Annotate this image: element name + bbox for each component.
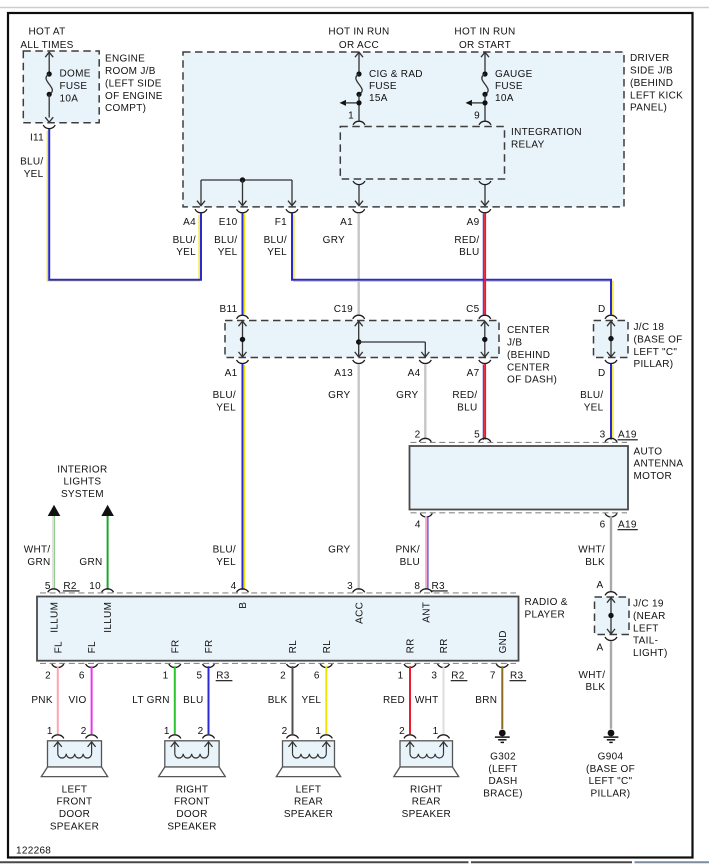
svg-text:DASH: DASH <box>489 776 518 787</box>
svg-text:I11: I11 <box>30 133 44 144</box>
svg-text:AUTO: AUTO <box>634 446 663 457</box>
J/C 19 internal joint <box>607 598 615 603</box>
svg-text:LEFT: LEFT <box>62 784 88 795</box>
pin 6 FL- of radio <box>86 664 98 667</box>
svg-text:CENTER: CENTER <box>507 325 550 336</box>
center J/B internal B11-A1 link <box>239 321 247 326</box>
connector A4 (center J/B) <box>419 360 431 364</box>
svg-text:RED/: RED/ <box>452 390 477 401</box>
svg-text:ALL TIMES: ALL TIMES <box>20 40 73 51</box>
pin 2 of right front door speaker <box>203 735 215 739</box>
svg-text:1: 1 <box>163 671 169 682</box>
wire WHT/BLK J/C 19 pin A to ground G904 <box>610 641 612 729</box>
center J/B internal C19-A13-A4 link <box>355 321 363 326</box>
svg-text:A9: A9 <box>467 217 480 228</box>
relay output A1 leg <box>353 181 365 185</box>
svg-text:CENTER: CENTER <box>507 362 550 373</box>
svg-text:6: 6 <box>314 671 320 682</box>
relay output A9 leg <box>479 181 491 185</box>
radio bottom connector row <box>40 662 516 664</box>
svg-text:YEL: YEL <box>216 557 236 568</box>
connector A7 <box>479 360 491 364</box>
off-page arrow GRN to interior lights <box>101 505 114 516</box>
svg-text:GRY: GRY <box>328 545 350 556</box>
pin 1 of right rear speaker <box>438 735 450 739</box>
svg-text:A19: A19 <box>618 520 637 531</box>
svg-text:LEFT: LEFT <box>633 623 659 634</box>
svg-text:(BEHIND: (BEHIND <box>507 350 550 361</box>
wire RED radio pin 1 to RR speaker pin 2 <box>409 666 411 734</box>
svg-text:OF DASH): OF DASH) <box>507 375 557 386</box>
svg-text:D: D <box>598 304 606 315</box>
svg-text:1: 1 <box>398 671 404 682</box>
svg-text:A1: A1 <box>225 368 238 379</box>
pin 6 of antenna motor <box>605 513 617 516</box>
svg-text:E10: E10 <box>219 217 238 228</box>
connector F1 <box>286 209 298 213</box>
svg-text:SYSTEM: SYSTEM <box>61 489 104 500</box>
svg-text:TAIL-: TAIL- <box>633 636 658 647</box>
svg-text:YEL: YEL <box>301 695 321 706</box>
svg-text:FL: FL <box>53 641 64 653</box>
svg-text:RIGHT: RIGHT <box>176 784 209 795</box>
wire LT GRN radio pin 1 to RF speaker pin 1 <box>174 666 176 734</box>
svg-text:BLU: BLU <box>457 402 477 413</box>
svg-text:2: 2 <box>415 430 421 441</box>
speaker LS1 left front door <box>48 741 102 767</box>
svg-text:BLU/: BLU/ <box>20 157 43 168</box>
svg-text:OR START: OR START <box>459 40 511 51</box>
wire BLU/YEL A1 to radio pin 4 <box>243 365 245 589</box>
center J/B box <box>225 321 499 358</box>
svg-text:PNK: PNK <box>31 695 52 706</box>
svg-text:RED/: RED/ <box>454 235 479 246</box>
J/C 19 box <box>595 597 630 635</box>
svg-text:WHT/: WHT/ <box>579 670 606 681</box>
svg-text:J/C 18: J/C 18 <box>634 322 665 333</box>
svg-text:FUSE: FUSE <box>495 81 523 92</box>
svg-text:BLU/: BLU/ <box>214 235 237 246</box>
svg-text:DRIVER: DRIVER <box>630 53 670 64</box>
wire GRY A4 to antenna motor pin 2 <box>424 364 426 440</box>
connector D (top) <box>605 315 617 319</box>
antenna motor top connector row <box>411 441 628 443</box>
svg-text:5: 5 <box>45 581 51 592</box>
svg-text:F1: F1 <box>275 217 287 228</box>
svg-text:PNK/: PNK/ <box>395 545 420 556</box>
svg-text:OF ENGINE: OF ENGINE <box>105 91 163 102</box>
connector B11 <box>237 315 249 319</box>
svg-text:PILLAR): PILLAR) <box>634 359 674 370</box>
svg-text:WHT/: WHT/ <box>24 545 51 556</box>
pin 10 ILLUM of radio <box>102 589 114 592</box>
svg-text:A: A <box>597 580 604 591</box>
svg-text:5: 5 <box>474 430 480 441</box>
svg-text:7: 7 <box>490 671 496 682</box>
svg-text:RR: RR <box>406 638 417 653</box>
svg-text:ACC: ACC <box>354 602 365 624</box>
pin 2 of right rear speaker <box>404 735 416 739</box>
svg-text:BLU/: BLU/ <box>264 235 287 246</box>
pin 1 of left front door speaker <box>52 735 64 739</box>
svg-text:1: 1 <box>47 726 53 737</box>
svg-text:2: 2 <box>81 726 87 737</box>
svg-text:GRN: GRN <box>79 557 102 568</box>
svg-text:YEL: YEL <box>218 247 238 258</box>
antenna motor bottom connector row <box>411 512 628 514</box>
svg-text:D: D <box>598 368 606 379</box>
svg-text:A4: A4 <box>183 217 196 228</box>
svg-text:PILLAR): PILLAR) <box>591 789 631 800</box>
fuse DOME FUSE 10A <box>45 52 53 57</box>
pin 4 B of radio <box>237 589 249 592</box>
J/B internal bus for A4 E10 F1 <box>201 179 292 181</box>
center J/B internal C5-A7 link <box>481 321 489 326</box>
pin 3 RR- of radio <box>438 664 450 667</box>
svg-text:J/C 19: J/C 19 <box>633 599 664 610</box>
wire BLU/YEL I11 to A4 (dome fuse feed) <box>47 131 199 281</box>
svg-text:REAR: REAR <box>294 797 323 808</box>
svg-text:A7: A7 <box>467 368 480 379</box>
pin 3 of antenna motor <box>605 438 617 441</box>
svg-text:ENGINE: ENGINE <box>105 54 145 65</box>
svg-text:3: 3 <box>347 581 353 592</box>
svg-text:LIGHTS: LIGHTS <box>63 477 101 488</box>
svg-text:A1: A1 <box>340 217 353 228</box>
svg-text:RIGHT: RIGHT <box>410 784 443 795</box>
svg-text:BLU/: BLU/ <box>213 545 236 556</box>
svg-text:4: 4 <box>415 520 421 531</box>
svg-text:B11: B11 <box>220 304 238 315</box>
wire BRN radio pin 7 to ground G302 <box>501 666 503 729</box>
svg-text:SPEAKER: SPEAKER <box>167 822 216 833</box>
svg-text:RL: RL <box>322 640 333 654</box>
connector A (top) <box>605 592 617 596</box>
svg-text:GND: GND <box>498 630 509 653</box>
svg-text:GRY: GRY <box>328 390 350 401</box>
bottom page rule <box>0 861 469 863</box>
connector A4 <box>195 209 207 213</box>
wire GRY A1 to C19 <box>358 213 360 315</box>
svg-text:INTEGRATION: INTEGRATION <box>511 127 582 138</box>
svg-text:BLU/: BLU/ <box>173 235 196 246</box>
speaker LS2 left rear <box>283 741 335 767</box>
pin 1 RR+ of radio <box>404 664 416 667</box>
pin 2 RL+ of radio <box>287 664 299 667</box>
svg-text:DOOR: DOOR <box>59 809 90 820</box>
svg-text:BLU: BLU <box>459 247 479 258</box>
wire WHT/BLK antenna motor pin 6 to J/C 19 pin A <box>610 516 612 591</box>
driver side J/B box <box>183 52 624 207</box>
off-page arrow WHT/GRN to interior lights <box>48 505 61 516</box>
svg-text:C19: C19 <box>334 304 353 315</box>
svg-text:COMPT): COMPT) <box>105 103 146 114</box>
svg-text:BLU: BLU <box>400 557 420 568</box>
svg-text:2: 2 <box>45 671 51 682</box>
svg-text:6: 6 <box>600 520 606 531</box>
svg-text:R3: R3 <box>216 671 230 682</box>
svg-text:MOTOR: MOTOR <box>634 471 673 482</box>
svg-text:LEFT "C": LEFT "C" <box>634 347 678 358</box>
speaker RS2 right rear <box>400 741 453 767</box>
wire VIO radio pin 6 to LF speaker pin 2 <box>91 666 93 734</box>
svg-text:9: 9 <box>474 111 480 122</box>
svg-text:PLAYER: PLAYER <box>525 610 566 621</box>
pin 5 ILLUM of radio <box>48 589 60 592</box>
auto antenna motor M1 box <box>410 446 629 510</box>
pin 6 RL- of radio <box>320 664 332 667</box>
svg-text:A13: A13 <box>334 368 353 379</box>
svg-text:LT GRN: LT GRN <box>132 695 170 706</box>
svg-text:(LEFT SIDE: (LEFT SIDE <box>105 78 162 89</box>
wire WHT radio pin 3 to RR speaker pin 1 <box>443 666 445 734</box>
svg-text:LEFT "C": LEFT "C" <box>589 776 633 787</box>
svg-text:WHT: WHT <box>415 695 439 706</box>
fuse GAUGE FUSE 10A <box>481 52 489 57</box>
svg-text:YEL: YEL <box>24 169 44 180</box>
svg-text:10A: 10A <box>495 93 514 104</box>
radio & player U2 box <box>37 597 519 661</box>
connector A13 <box>353 360 365 364</box>
svg-text:LEFT: LEFT <box>296 784 322 795</box>
svg-text:FRONT: FRONT <box>57 797 93 808</box>
svg-text:GRY: GRY <box>323 235 345 246</box>
svg-text:BLU/: BLU/ <box>213 390 236 401</box>
integration relay U1 <box>340 127 504 180</box>
svg-text:(BASE OF: (BASE OF <box>634 334 683 345</box>
fuse CIG & RAD FUSE 15A <box>355 52 363 57</box>
svg-text:LIGHT): LIGHT) <box>633 648 668 659</box>
svg-text:RR: RR <box>439 638 450 653</box>
svg-text:VIO: VIO <box>68 695 86 706</box>
connector A (bottom) <box>605 637 617 641</box>
svg-text:BLK: BLK <box>268 695 288 706</box>
svg-text:YEL: YEL <box>584 402 604 413</box>
svg-text:WHT/: WHT/ <box>578 545 605 556</box>
svg-text:FRONT: FRONT <box>174 797 210 808</box>
svg-text:G904: G904 <box>598 751 624 762</box>
svg-text:A4: A4 <box>408 368 421 379</box>
wire RED/BLU A7 to antenna motor pin 5 <box>482 364 484 440</box>
svg-text:SIDE J/B: SIDE J/B <box>630 66 673 77</box>
pin 8 ANT of radio <box>420 589 432 592</box>
svg-text:ROOM J/B: ROOM J/B <box>105 66 156 77</box>
ground G302 <box>499 730 506 737</box>
svg-text:ANT: ANT <box>422 602 433 623</box>
svg-text:1: 1 <box>164 726 170 737</box>
svg-text:15A: 15A <box>369 93 388 104</box>
pin 1 FR+ of radio <box>169 664 181 667</box>
svg-text:BRACE): BRACE) <box>483 789 523 800</box>
radio top connector row <box>40 592 516 594</box>
connector A1 <box>353 209 365 213</box>
svg-text:R3: R3 <box>432 581 446 592</box>
svg-text:(BEHIND: (BEHIND <box>630 78 673 89</box>
svg-text:SPEAKER: SPEAKER <box>402 809 451 820</box>
svg-text:OR ACC: OR ACC <box>339 40 379 51</box>
svg-text:SPEAKER: SPEAKER <box>50 822 99 833</box>
J/C 18 box <box>594 321 629 358</box>
svg-text:BLU: BLU <box>183 695 203 706</box>
svg-text:REAR: REAR <box>412 797 441 808</box>
svg-text:ILLUM: ILLUM <box>103 602 114 633</box>
svg-text:YEL: YEL <box>176 247 196 258</box>
connector C5 <box>479 315 491 319</box>
svg-text:DOME: DOME <box>60 69 91 80</box>
svg-text:10: 10 <box>89 581 101 592</box>
connector A1 (center J/B) <box>237 360 249 364</box>
svg-text:RELAY: RELAY <box>511 140 545 151</box>
svg-text:FR: FR <box>170 639 181 653</box>
pin 4 of antenna motor <box>420 513 432 516</box>
svg-text:2: 2 <box>399 726 405 737</box>
svg-text:FR: FR <box>204 639 215 653</box>
pin 1 of right front door speaker <box>169 735 181 739</box>
pin 1 of left rear speaker <box>320 735 332 739</box>
ground G904 <box>608 730 615 737</box>
svg-text:RED: RED <box>383 695 405 706</box>
wire BLK radio pin 2 to LR speaker pin 2 <box>292 666 294 734</box>
wire RED/BLU A9 to C5 <box>482 214 484 316</box>
svg-text:8: 8 <box>414 581 420 592</box>
svg-text:HOT IN RUN: HOT IN RUN <box>328 27 389 38</box>
svg-text:J/B: J/B <box>507 338 522 349</box>
svg-text:INTERIOR: INTERIOR <box>57 465 107 476</box>
svg-text:FUSE: FUSE <box>369 81 397 92</box>
svg-text:FUSE: FUSE <box>60 81 88 92</box>
pin 5 FR- of radio <box>203 664 215 667</box>
pin 2 of antenna motor <box>419 438 431 441</box>
connector I11 <box>43 125 55 129</box>
svg-text:PANEL): PANEL) <box>630 103 667 114</box>
svg-text:A: A <box>597 643 604 654</box>
pin 5 of antenna motor <box>479 438 491 441</box>
svg-text:2: 2 <box>282 726 288 737</box>
svg-text:10A: 10A <box>60 93 79 104</box>
svg-text:DOOR: DOOR <box>176 809 207 820</box>
svg-text:A19: A19 <box>618 430 637 441</box>
wire PNK/BLU antenna motor pin 4 to radio pin 8 <box>427 516 429 589</box>
svg-text:GRN: GRN <box>27 557 50 568</box>
pin 2 FL+ of radio <box>52 664 64 667</box>
wire BLU/YEL J/C 18 D to antenna motor pin 3 <box>612 365 614 439</box>
wire WHT/GRN radio pin 5 to interior lights <box>52 516 54 590</box>
wire PNK radio pin 2 to LF speaker pin 1 <box>57 666 59 734</box>
pin 2 of left front door speaker <box>86 735 98 739</box>
speaker RS1 right front door <box>165 741 219 767</box>
svg-text:1: 1 <box>433 726 439 737</box>
svg-text:B: B <box>238 602 249 609</box>
svg-text:2: 2 <box>198 726 204 737</box>
svg-text:ILLUM: ILLUM <box>49 602 60 633</box>
svg-text:BRN: BRN <box>475 695 497 706</box>
svg-text:SPEAKER: SPEAKER <box>284 809 333 820</box>
svg-text:HOT AT: HOT AT <box>29 27 66 38</box>
svg-text:LEFT KICK: LEFT KICK <box>630 90 683 101</box>
svg-text:GAUGE: GAUGE <box>495 69 533 80</box>
connector A9 <box>479 209 491 213</box>
svg-text:(BASE OF: (BASE OF <box>586 764 635 775</box>
svg-text:BLU/: BLU/ <box>580 390 603 401</box>
svg-text:R2: R2 <box>451 671 465 682</box>
svg-text:FL: FL <box>87 641 98 653</box>
svg-text:RADIO &: RADIO & <box>525 597 568 608</box>
svg-text:C5: C5 <box>466 304 480 315</box>
svg-text:2: 2 <box>280 671 286 682</box>
svg-text:5: 5 <box>197 671 203 682</box>
wire GRY A13 to radio pin 3 <box>358 364 360 590</box>
svg-text:YEL: YEL <box>267 247 287 258</box>
svg-text:HOT IN RUN: HOT IN RUN <box>454 27 515 38</box>
wire GRN radio pin 10 to interior lights <box>107 516 109 590</box>
top separator line <box>0 7 709 9</box>
svg-text:122268: 122268 <box>16 846 51 857</box>
svg-text:BLK: BLK <box>585 682 605 693</box>
connector C19 <box>353 315 365 319</box>
pin 2 of left rear speaker <box>287 735 299 739</box>
svg-text:R3: R3 <box>510 671 524 682</box>
wire BLU/YEL E10 to B11 <box>243 214 245 314</box>
svg-text:3: 3 <box>431 671 437 682</box>
connector D (bottom) <box>605 360 617 364</box>
wire YEL radio pin 6 to LR speaker pin 1 <box>325 666 327 734</box>
svg-text:RL: RL <box>288 640 299 654</box>
pin 7 GND of radio <box>496 664 508 667</box>
engine room J/B box <box>23 51 99 123</box>
svg-text:1: 1 <box>348 111 354 122</box>
svg-text:6: 6 <box>79 671 85 682</box>
svg-text:(NEAR: (NEAR <box>633 611 666 622</box>
svg-text:YEL: YEL <box>216 402 236 413</box>
svg-text:4: 4 <box>231 581 237 592</box>
wire BLU radio pin 5 to RF speaker pin 2 <box>208 666 210 734</box>
svg-text:G302: G302 <box>490 751 516 762</box>
svg-text:3: 3 <box>600 430 606 441</box>
J/C 18 internal joint <box>607 321 615 326</box>
svg-text:(LEFT: (LEFT <box>488 764 517 775</box>
svg-text:1: 1 <box>315 726 321 737</box>
svg-text:CIG & RAD: CIG & RAD <box>369 69 423 80</box>
connector E10 <box>237 209 249 213</box>
svg-text:BLK: BLK <box>585 557 605 568</box>
wire BLU/YEL F1 to J/C 18 pin D <box>294 215 613 317</box>
svg-text:R2: R2 <box>63 581 77 592</box>
svg-text:GRY: GRY <box>396 390 418 401</box>
svg-text:ANTENNA: ANTENNA <box>634 459 684 470</box>
pin 3 ACC of radio <box>353 589 365 592</box>
